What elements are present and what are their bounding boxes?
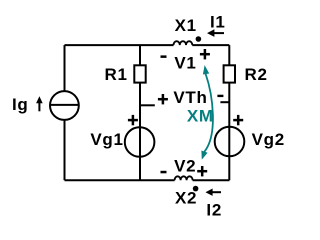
svg-text:VTh: VTh	[173, 88, 207, 107]
svg-text:Vg2: Vg2	[252, 130, 285, 149]
svg-text:I2: I2	[206, 201, 222, 220]
svg-text:V1: V1	[174, 54, 196, 73]
svg-text:X1: X1	[175, 16, 197, 35]
svg-text:Vg1: Vg1	[90, 130, 123, 149]
svg-text:I1: I1	[210, 13, 226, 32]
svg-text:V2: V2	[174, 156, 196, 175]
svg-text:R2: R2	[245, 65, 268, 84]
svg-text:X2: X2	[175, 189, 197, 208]
svg-text:Ig: Ig	[12, 95, 29, 114]
svg-text:XM: XM	[187, 107, 214, 126]
svg-text:R1: R1	[105, 65, 128, 84]
